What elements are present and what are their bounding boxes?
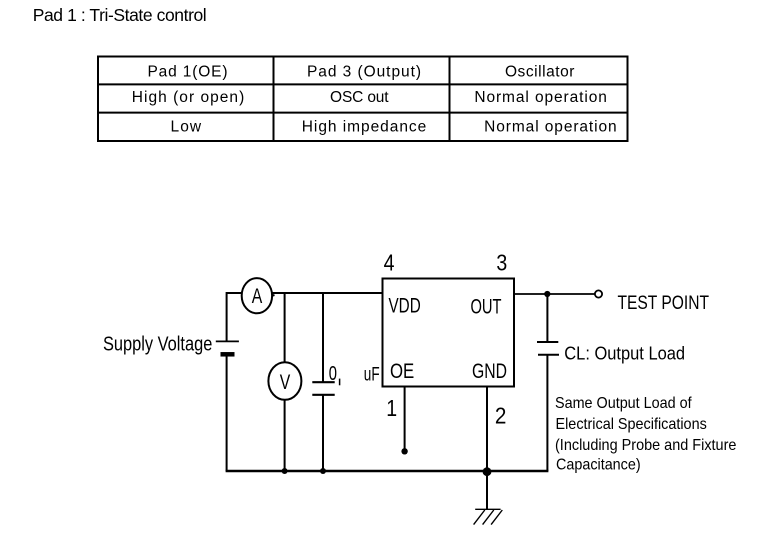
- svg-text:Low: Low: [171, 119, 202, 136]
- svg-text:2: 2: [495, 402, 507, 428]
- svg-text:High impedance: High impedance: [302, 119, 427, 136]
- svg-text:Pad 3 (Output): Pad 3 (Output): [307, 64, 421, 81]
- svg-text:TEST POINT: TEST POINT: [618, 291, 710, 313]
- svg-text:Supply Voltage: Supply Voltage: [103, 332, 212, 355]
- svg-text:1: 1: [386, 396, 397, 422]
- svg-text:Normal operation: Normal operation: [484, 119, 617, 136]
- svg-text:3: 3: [496, 250, 507, 276]
- svg-text:GND: GND: [472, 359, 507, 383]
- svg-text:Electrical Specifications: Electrical Specifications: [556, 416, 707, 434]
- svg-text:Capacitance): Capacitance): [556, 456, 641, 474]
- svg-text:Normal operation: Normal operation: [474, 89, 607, 106]
- svg-text:Same Output Load of: Same Output Load of: [555, 394, 692, 412]
- svg-text:High (or open): High (or open): [132, 89, 245, 106]
- svg-text:Pad 1 : Tri-State control: Pad 1 : Tri-State control: [33, 5, 207, 25]
- svg-text:A: A: [252, 284, 263, 308]
- svg-text:(Including Probe and Fixture: (Including Probe and Fixture: [555, 437, 736, 455]
- svg-text:Oscillator: Oscillator: [505, 64, 575, 81]
- svg-text:CL: Output Load: CL: Output Load: [564, 343, 685, 364]
- svg-text:OUT: OUT: [471, 295, 502, 318]
- svg-text:VDD: VDD: [389, 293, 421, 317]
- svg-text:OE: OE: [390, 361, 414, 384]
- svg-text:Pad 1(OE): Pad 1(OE): [148, 64, 228, 81]
- svg-text:4: 4: [384, 250, 395, 276]
- svg-text:0: 0: [329, 362, 337, 385]
- svg-text:OSC out: OSC out: [330, 89, 389, 106]
- svg-text:V: V: [280, 370, 291, 394]
- svg-text:uF: uF: [364, 364, 380, 385]
